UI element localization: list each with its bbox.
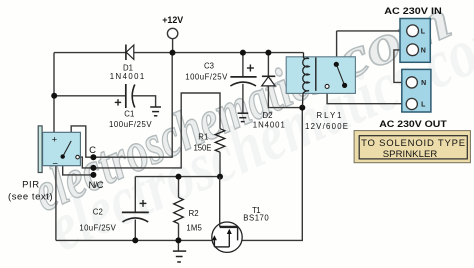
wire relay coil to drain — [238, 108, 303, 241]
relay coil — [302, 53, 309, 108]
node mid — [90, 165, 96, 171]
svg-text:RLY1: RLY1 — [317, 111, 342, 120]
svg-text:1N4001: 1N4001 — [253, 120, 285, 129]
junction D2 — [265, 50, 271, 56]
capacitor C3 — [185, 61, 256, 86]
svg-text:+: + — [52, 134, 58, 145]
svg-text:100uF/25V: 100uF/25V — [109, 120, 152, 129]
wire NO line to R1 top loop — [93, 93, 220, 168]
AC connector OUT — [379, 69, 447, 129]
wire C3 to ground — [242, 84, 244, 113]
T1 bottom bar — [214, 246, 229, 248]
junction C3 — [240, 50, 246, 56]
wire R2 bottom lead — [178, 224, 180, 241]
wire gate line — [135, 176, 220, 178]
ground (main) — [173, 251, 186, 262]
PIR switch arm — [63, 141, 71, 157]
relay arm — [336, 64, 344, 85]
svg-text:N: N — [421, 47, 426, 54]
note box sprinkler — [354, 131, 470, 163]
resistor R2 — [174, 197, 203, 232]
junction R2 bottom — [175, 237, 181, 243]
wire left rail (PIR +) — [53, 53, 55, 133]
AC connector IN — [384, 6, 442, 62]
svg-text:+12V: +12V — [162, 15, 184, 26]
ground (C1) — [150, 107, 161, 116]
junction R2 top — [176, 174, 182, 180]
junction coil bottom — [299, 105, 305, 111]
svg-text:SPRINKLER: SPRINKLER — [383, 149, 438, 160]
wire main ground stub — [177, 240, 179, 251]
node N/C — [90, 172, 96, 178]
wire C3 top lead — [242, 53, 244, 77]
terminal +12V — [167, 28, 177, 38]
svg-text:10uF/25V: 10uF/25V — [79, 223, 116, 232]
capacitor C1 — [109, 84, 152, 129]
wire ground rail — [56, 239, 215, 241]
svg-text:R2: R2 — [189, 209, 199, 218]
transistor T1 (MOSFET) — [212, 177, 270, 253]
svg-text:PIR: PIR — [22, 180, 39, 191]
diode D2 — [253, 76, 285, 129]
svg-text:N: N — [421, 80, 426, 87]
junction +12 — [170, 50, 176, 56]
svg-text:AC 230V OUT: AC 230V OUT — [379, 119, 447, 130]
T1 gate bar — [220, 226, 238, 228]
diode D1 — [110, 45, 145, 82]
wire AC in N to out N — [394, 50, 407, 83]
svg-text:R1: R1 — [198, 133, 208, 142]
svg-text:TO SOLENOID TYPE: TO SOLENOID TYPE — [361, 138, 465, 149]
svg-text:1M5: 1M5 — [186, 223, 202, 232]
svg-text:N/C: N/C — [89, 180, 104, 191]
wire node C to +12 rail — [93, 53, 172, 158]
wire PIR pole to N/C — [63, 158, 94, 175]
svg-text:C2: C2 — [93, 208, 103, 217]
svg-text:BS170: BS170 — [243, 214, 269, 223]
junction gate — [217, 174, 223, 180]
ground (C3) — [238, 113, 249, 121]
relay RLY1 — [286, 53, 355, 132]
svg-text:C1: C1 — [124, 109, 134, 118]
wire C2 bottom lead — [134, 220, 136, 241]
wire R1 bottom lead — [219, 152, 221, 176]
wire R2 top lead — [178, 177, 180, 198]
svg-text:12V/600E: 12V/600E — [305, 122, 348, 131]
svg-text:(see text): (see text) — [8, 192, 53, 203]
node C — [90, 154, 96, 160]
resistor R1 — [194, 129, 225, 153]
wire D2 anode to relay — [268, 86, 302, 108]
T1 source vertical — [213, 237, 215, 247]
svg-text:L: L — [421, 28, 426, 35]
junction C2 bottom — [132, 237, 138, 243]
wire PIR C over-top — [71, 126, 93, 157]
svg-text:C: C — [89, 145, 96, 156]
PIR module — [8, 126, 80, 203]
capacitor C2 — [79, 200, 148, 232]
svg-text:D2: D2 — [263, 111, 273, 120]
wire C1 to ground — [133, 96, 156, 107]
wire C1 branch — [54, 95, 126, 97]
wire relay NO to AC out L — [327, 88, 406, 103]
wire AC in L — [337, 30, 407, 32]
svg-text:AC 230V IN: AC 230V IN — [384, 6, 442, 17]
T1 drain bend — [237, 227, 239, 241]
T1 drain lead — [219, 177, 221, 227]
wire D2 top lead — [267, 53, 269, 77]
svg-text:150E: 150E — [194, 143, 212, 152]
relay core — [315, 57, 317, 91]
wire +12V drop — [172, 39, 174, 53]
wire PIR NO contact jog — [79, 157, 93, 168]
junction C1 — [51, 93, 57, 99]
svg-text:−: − — [52, 159, 58, 170]
svg-text:100uF/25V: 100uF/25V — [185, 73, 228, 82]
wire top rail — [54, 52, 304, 54]
T1 substrate arrow — [228, 231, 230, 247]
wire C2 top lead — [134, 177, 136, 212]
wire PIR minus down — [55, 166, 57, 241]
svg-text:C3: C3 — [204, 61, 214, 70]
svg-text:L: L — [421, 102, 426, 109]
wire relay arm top — [336, 31, 338, 64]
